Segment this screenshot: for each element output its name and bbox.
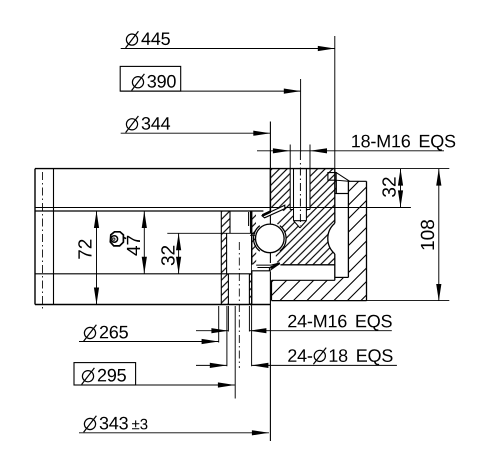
top-right seal flag <box>328 173 336 181</box>
plate bottom line / 32 extension line <box>35 207 411 209</box>
label 47 <box>127 236 140 256</box>
white cutout: outer ring M16 tapped hole <box>290 168 310 228</box>
label tolerance ±3 <box>132 419 147 430</box>
label Ø265 <box>84 325 97 342</box>
support ring right edge <box>366 181 368 300</box>
label 18 EQS suffix <box>330 349 393 365</box>
dim Ø344 line <box>121 132 271 134</box>
dim 18-M16 line <box>257 150 444 152</box>
inner ring left face <box>34 169 36 305</box>
inner race arc <box>254 226 260 252</box>
dim Ø295 line <box>136 384 235 386</box>
inner ring bottom face <box>35 304 270 306</box>
label 108 <box>421 220 435 250</box>
dim 72 line <box>96 211 98 305</box>
outer ring bottom recess <box>271 264 335 266</box>
label Ø295 <box>82 368 95 385</box>
dim Ø390 line <box>120 90 301 92</box>
label Ø344 <box>126 116 139 133</box>
label Ø445 digits <box>141 33 170 46</box>
dim 47 line <box>143 211 145 274</box>
inner ring bore step <box>53 169 55 305</box>
inner ring mid line <box>35 273 252 275</box>
box Ø295 <box>74 363 136 385</box>
ball <box>255 224 284 253</box>
dim 32 right line <box>400 169 402 208</box>
tapped hole M16 lower edges <box>228 274 249 305</box>
inner ring top face <box>35 210 263 212</box>
label 72 <box>78 240 91 259</box>
label Ø295 digits <box>98 369 126 382</box>
gear tip edge <box>347 181 349 277</box>
bolt hole centerline <box>238 242 240 368</box>
ext 24-Ø18 <box>227 305 252 367</box>
dim Ø265 line <box>79 341 219 343</box>
label Ø343 digits <box>100 417 128 430</box>
label Ø265 digits <box>100 326 128 339</box>
dimension graphics <box>74 36 444 433</box>
inner ring top plate <box>35 169 449 368</box>
label Ø390 digits <box>148 75 176 88</box>
ext Ø295 <box>234 306 236 399</box>
label 24- prefix <box>288 349 312 362</box>
through hole edges <box>227 233 252 273</box>
grease nipple <box>110 232 126 246</box>
dim 32 left line <box>178 233 180 273</box>
ext 24-M16 <box>228 306 249 332</box>
support ring bottom edge <box>272 300 367 302</box>
label Ø390 <box>132 74 145 91</box>
dim 108 line <box>438 169 440 301</box>
ext Ø265 <box>218 306 220 343</box>
dim 24-Ø18 line <box>196 364 397 366</box>
dim Ø343 line <box>79 432 269 434</box>
lower seal wedge <box>252 262 281 271</box>
inner ring right face <box>251 211 253 305</box>
support ring inner step <box>272 279 335 281</box>
box Ø390 <box>120 66 181 91</box>
dim 24-M16 line <box>196 330 392 332</box>
bolt zone left edge <box>220 211 222 305</box>
inner ring left centerline <box>42 172 44 309</box>
outer race arc <box>280 226 286 252</box>
label 24-Ø18 EQS <box>313 348 326 365</box>
gear tooth space arc <box>328 223 335 254</box>
label Ø445 <box>126 31 139 48</box>
white cutouts: inner ring bolt holes <box>230 210 251 233</box>
support ring top edge <box>348 180 366 182</box>
dim Ø445 line <box>121 48 335 50</box>
ext 18-M16 <box>290 145 310 169</box>
outer ring right edge top <box>334 169 336 224</box>
outer ring section hatch <box>270 169 336 265</box>
label 32 right <box>382 177 396 197</box>
inner ring race sliver hatch <box>250 212 256 233</box>
tapped hole M16 upper edges <box>230 211 251 233</box>
label Ø343 ±3 <box>84 416 97 433</box>
M16 top hole outline <box>290 169 310 210</box>
upper seal wedge <box>262 205 285 218</box>
race shoulder / 32 extension line <box>167 232 255 234</box>
seal groove wall <box>248 212 250 226</box>
inner ring bolt-zone hatch <box>221 211 251 305</box>
support ring section hatch <box>272 181 367 300</box>
ext Ø445 <box>334 36 336 169</box>
outer ring outline <box>270 122 449 442</box>
outer ring right edge below seal notch <box>335 180 337 193</box>
top face line <box>35 168 335 170</box>
outer ring left edge <box>269 122 271 442</box>
arrows <box>94 46 442 436</box>
label 18-M16 EQS <box>352 135 455 151</box>
ext Ø390 <box>300 79 302 152</box>
label Ø344 digits <box>142 117 170 130</box>
label 24-M16 EQS <box>288 315 392 331</box>
label 32 left <box>161 246 175 265</box>
